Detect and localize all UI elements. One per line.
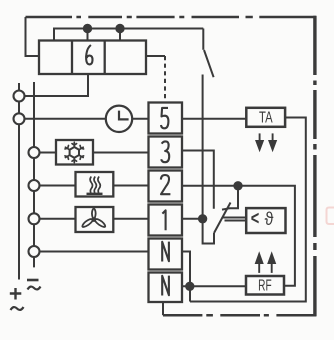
thermostat box xyxy=(246,208,285,233)
svg-text:TA: TA xyxy=(259,110,273,127)
supply terminal circle xyxy=(29,180,40,191)
wire terminal N2 to RF xyxy=(182,285,246,287)
wire fan box to terminal 1 xyxy=(113,218,148,220)
wire N terminals to junction xyxy=(182,252,190,302)
wire terminal 5 to TA xyxy=(182,118,246,120)
label 6 xyxy=(86,45,92,64)
wire to cooling box xyxy=(40,152,57,154)
svg-text:ϑ: ϑ xyxy=(265,209,274,229)
wire to clock xyxy=(25,118,106,120)
junction dot terminal 2 wire xyxy=(230,182,242,208)
plus label xyxy=(10,288,21,300)
heating contactor box xyxy=(76,172,114,197)
supply terminal circle xyxy=(29,213,40,224)
svg-text:<: < xyxy=(251,208,260,229)
snowflake icon xyxy=(65,142,84,162)
thermostat link (double line) xyxy=(223,218,246,221)
wire relay box bottom to supply terminal xyxy=(25,74,89,96)
cooling contactor box xyxy=(56,140,93,165)
supply terminal circle xyxy=(14,113,25,124)
supply line L (+) xyxy=(18,83,20,280)
fan icon xyxy=(82,209,105,227)
junction dot terminal 1 wire xyxy=(182,215,206,222)
wire cooling box to terminal 3 xyxy=(93,152,149,154)
wire clock to terminal 5 xyxy=(132,118,148,120)
clock symbol xyxy=(106,106,132,132)
wire from border corner down to relay box xyxy=(26,17,40,56)
supply terminal circle xyxy=(29,246,40,257)
changeover blade with arrow xyxy=(214,203,231,234)
supply line N (~) xyxy=(33,82,35,267)
RF box xyxy=(246,276,284,295)
mains switch xyxy=(203,29,213,78)
fan contactor box xyxy=(76,207,114,232)
dashed wire down to terminal 5 xyxy=(164,56,166,103)
wire top bus xyxy=(54,29,203,41)
wire terminal 2 to contact xyxy=(182,185,238,187)
enclosure border top (dash-dot) xyxy=(26,16,316,19)
wire supply to terminal N xyxy=(40,251,149,253)
terminal block xyxy=(149,103,183,303)
supply terminal circle xyxy=(14,91,25,102)
TA box xyxy=(246,108,285,127)
terminal label N xyxy=(162,276,169,296)
junction dot on top bus xyxy=(84,25,91,41)
RF arrows up xyxy=(256,254,275,273)
enclosure border right (dash-dot) xyxy=(313,16,316,317)
minus label xyxy=(27,279,39,282)
wire TA to N (right loop) xyxy=(190,118,306,302)
tilde label xyxy=(28,287,41,290)
terminal label 3 xyxy=(161,141,169,162)
terminal label 2 xyxy=(161,175,171,194)
svg-text:RF: RF xyxy=(258,277,272,294)
faint pink ghost at right edge xyxy=(327,208,334,225)
terminal label 1 xyxy=(162,210,165,230)
wire to fan box xyxy=(40,218,76,220)
junction dot on top bus xyxy=(116,25,123,41)
wire relay box right to dashed drop xyxy=(146,55,165,57)
relay box (3 cells) xyxy=(39,41,146,75)
TA arrows down xyxy=(256,133,275,149)
wire RF to terminal 2 net (right loop) xyxy=(242,186,295,286)
heating icon xyxy=(87,177,103,194)
supply terminal circle xyxy=(29,147,40,158)
junction dot N bus xyxy=(186,283,193,290)
terminal label N xyxy=(162,242,169,262)
wire to heating box xyxy=(40,185,76,187)
tilde label xyxy=(11,307,24,310)
enclosure border bottom (dash-dot) xyxy=(163,314,316,317)
wire heating box to terminal 2 xyxy=(113,185,148,187)
wire switch to changeover common xyxy=(203,75,214,244)
terminal label 5 xyxy=(161,108,168,128)
wire terminal 3 to contact xyxy=(182,151,214,209)
wire terminal N2 bottom to border xyxy=(162,302,164,315)
